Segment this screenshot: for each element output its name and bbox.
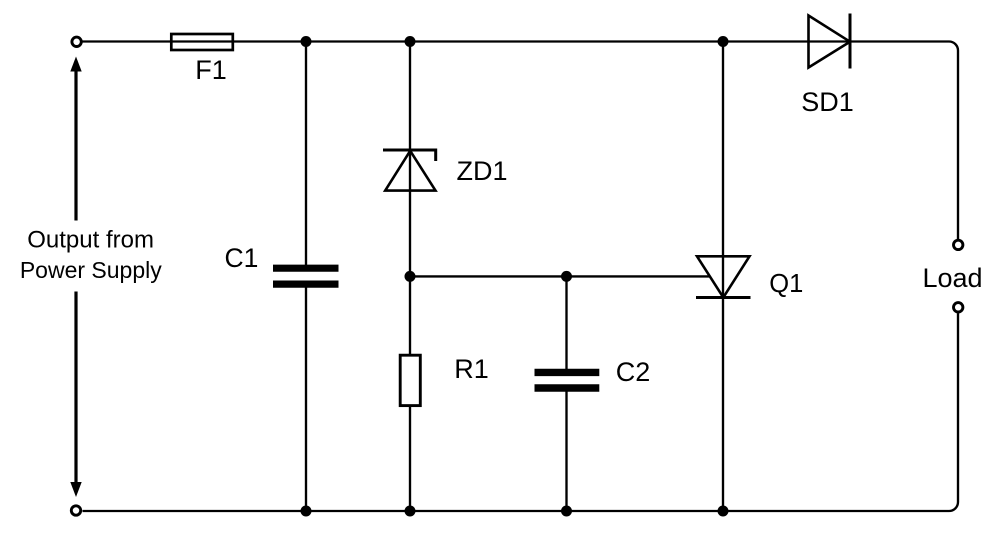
wire: C2 lower lead [565,392,567,512]
load terminal (top) [954,240,963,249]
capacitor C2 bottom plate [535,384,600,391]
capacitor C1 bottom plate [273,281,339,288]
svg-text:ZD1: ZD1 [456,156,507,186]
arrow shaft upper segment [74,70,77,221]
junction node: bottom rail / C2 [561,506,572,517]
arrow shaft lower segment [74,292,77,484]
svg-text:C1: C1 [225,243,259,273]
junction node: top rail / C1 [301,36,312,47]
svg-text:Output from: Output from [27,227,154,254]
svg-text:R1: R1 [454,354,489,384]
wire: C1 branch lower segment [305,288,307,512]
wire: R1 lower lead [409,406,411,511]
wire: C2 upper lead [565,276,567,369]
thyristor Q1 triangle [697,256,750,297]
diode SD1 triangle [809,16,851,68]
svg-text:Q1: Q1 [769,270,803,298]
arrowhead down [70,482,81,497]
wire: top rail from input terminal through F1, junctions, SD1, to top-right corner [83,42,959,240]
resistor R1 body [400,355,420,405]
wire: Q1 branch (top rail to bottom rail) [722,42,724,512]
svg-text:F1: F1 [195,55,227,85]
zener diode ZD1 cathode bar with hook [383,150,436,161]
wire: mid rail (gate rail) from ZD1/R1 node to Q1 gate [410,275,710,277]
junction node: top rail / ZD1 [405,36,416,47]
svg-text:SD1: SD1 [801,87,854,117]
wire: ZD1 branch (top rail to mid rail) [409,42,411,277]
junction node: bottom rail / R1 [405,506,416,517]
svg-text:C2: C2 [616,357,651,387]
load terminal (bottom) [954,303,963,312]
input terminal (top left) [72,37,81,46]
svg-text:Power Supply: Power Supply [20,257,162,283]
thyristor Q1 cathode bar [696,296,751,299]
diode SD1 cathode bar [849,14,852,69]
wire: load bottom to bottom rail and bottom rail to output terminal [83,313,959,511]
output terminal (bottom left) [71,506,80,515]
wire: R1 upper lead [409,276,411,354]
fuse F1 body [171,34,233,50]
junction node: bottom rail / Q1 [718,506,729,517]
wire: C1 branch upper segment [305,42,307,266]
junction node: mid rail / C2 [561,271,572,282]
zener diode ZD1 triangle [385,151,435,191]
capacitor C1 top plate [273,265,339,272]
capacitor C2 top plate [535,369,600,376]
junction node: bottom rail / C1 [301,506,312,517]
junction node: mid rail / ZD1-R1 [405,271,416,282]
svg-text:Load: Load [922,263,982,293]
junction node: top rail / Q1 [718,36,729,47]
arrowhead up [70,57,81,72]
